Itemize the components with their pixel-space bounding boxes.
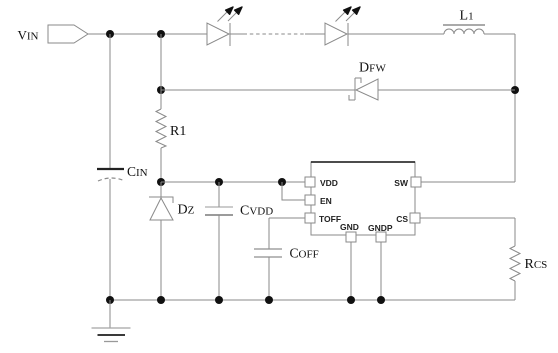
dashed wire LED string: [244, 33, 326, 35]
svg-text:GNDP: GNDP: [368, 223, 393, 233]
zener diode Dz: [149, 182, 195, 300]
ground: [92, 300, 131, 342]
wire EN branch: [282, 182, 305, 200]
wire VDD horizontal rail: [161, 181, 305, 183]
capacitor CIN: [97, 34, 148, 300]
svg-text:COFF: COFF: [290, 246, 319, 261]
node junction VDD/EN branch: [278, 178, 286, 186]
pin TOFF: [305, 213, 341, 224]
svg-text:VDD: VDD: [320, 178, 338, 188]
wire L1 to right corner, down to SW level: [484, 34, 515, 182]
node junction top/R1: [157, 30, 165, 38]
wire LED2 to L1: [348, 33, 444, 35]
wire CS to RCS: [420, 218, 515, 246]
pin CS: [396, 213, 420, 224]
wire DFW horizontal: [161, 89, 515, 91]
node junction R1/DFW: [157, 86, 165, 94]
wire GND stub: [350, 242, 352, 300]
diode DFW (schottky): [349, 61, 387, 101]
node junction CIN bottom: [106, 296, 114, 304]
wire R1 branch vertical top: [160, 34, 162, 109]
capacitor COFF: [254, 218, 319, 300]
svg-text:DZ: DZ: [178, 203, 195, 218]
wire RCS to bottom rail: [514, 281, 516, 300]
LED D1: [207, 7, 242, 46]
node junction GNDP bottom: [377, 296, 385, 304]
svg-text:L1: L1: [460, 9, 474, 24]
svg-text:RCS: RCS: [525, 257, 548, 272]
svg-text:CVDD: CVDD: [240, 203, 273, 218]
connector VIN: [18, 25, 89, 43]
node junction Dz bottom: [157, 296, 165, 304]
node junction GND bottom: [347, 296, 355, 304]
wire TOFF: [269, 217, 305, 219]
node junction VIN/CIN: [106, 30, 114, 38]
pin SW: [394, 177, 421, 188]
resistor R1: [156, 109, 186, 148]
IC U1 body: [311, 162, 415, 235]
LED D2: [325, 7, 360, 46]
svg-text:TOFF: TOFF: [319, 214, 341, 224]
pin EN: [305, 195, 332, 206]
svg-text:EN: EN: [320, 196, 332, 206]
svg-text:CS: CS: [396, 214, 408, 224]
node junction CVDD top: [215, 178, 223, 186]
svg-text:CIN: CIN: [127, 164, 148, 179]
wire top rail from VIN to LED1: [88, 33, 207, 35]
node junction COFF bottom: [265, 296, 273, 304]
pin GND: [340, 222, 359, 242]
node junction R1/Dz/VDD-rail: [157, 178, 165, 186]
svg-text:VIN: VIN: [18, 27, 39, 42]
wire SW to right rail: [421, 181, 515, 183]
pin VDD: [305, 177, 338, 188]
svg-text:SW: SW: [394, 178, 409, 188]
node junction DFW/right: [511, 86, 519, 94]
wire LED1 to dashed: [230, 33, 244, 35]
node junction CVDD bottom: [215, 296, 223, 304]
svg-text:R1: R1: [170, 124, 186, 139]
resistor RCS: [510, 246, 547, 281]
capacitor CVDD: [205, 182, 273, 300]
inductor L1: [443, 9, 485, 35]
svg-text:GND: GND: [340, 222, 359, 232]
svg-text:DFW: DFW: [359, 61, 387, 76]
wire R1 to VDD rail: [160, 148, 162, 182]
pin GNDP: [368, 223, 393, 242]
wire bottom ground rail: [110, 299, 515, 301]
wire GNDP stub: [380, 242, 382, 300]
